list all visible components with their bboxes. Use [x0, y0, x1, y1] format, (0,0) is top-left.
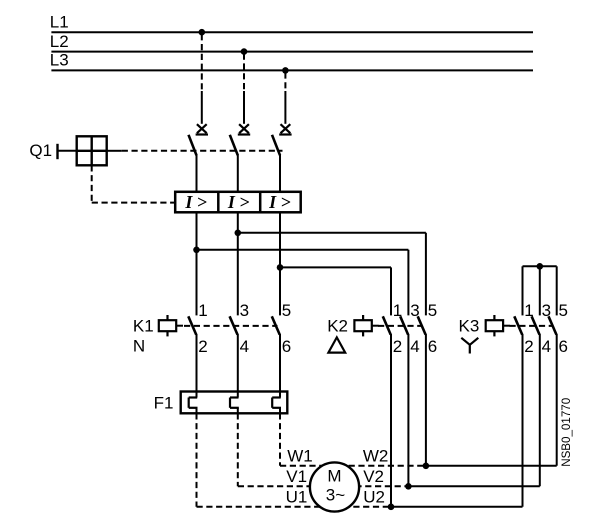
- wire K3 bridge to contact 1: [522, 266, 524, 315]
- dashed actuator link K2 to contacts: [378, 325, 423, 327]
- I> release 3 label: [268, 192, 295, 212]
- K3 terminal 4 label: [542, 337, 551, 356]
- wire F1 output 2 to motor V1 (dashed): [237, 413, 239, 486]
- svg-text:5: 5: [282, 301, 291, 320]
- node K3 star-point junction: [537, 263, 544, 270]
- contactor K1 coil symbol: [159, 315, 183, 336]
- wire Q1 tick to box: [58, 150, 77, 152]
- contactor K1 coil label: [133, 317, 154, 336]
- dashed actuator link K1 to contacts: [184, 325, 278, 327]
- svg-text:2: 2: [198, 337, 207, 356]
- K3 terminal 1 label: [524, 301, 533, 320]
- node V2 junction with K2 terminal 4: [405, 483, 412, 490]
- svg-text:W2: W2: [363, 447, 389, 466]
- motor label 3~: [326, 486, 345, 505]
- svg-text:L2: L2: [50, 32, 69, 51]
- drawing number NSB0_01770: [560, 398, 573, 467]
- svg-text:U1: U1: [286, 488, 308, 507]
- wire motor row U1-U2 (dashed section): [197, 506, 392, 508]
- wire K3 bridge to contact 5: [556, 266, 558, 315]
- K2 contact blade 1-2: [383, 316, 391, 334]
- svg-text:K2: K2: [327, 317, 348, 336]
- K3 star-point bridge bar: [523, 265, 557, 267]
- wire K1 contact 4 to F1: [237, 334, 239, 398]
- motor terminal label U2: [363, 488, 385, 507]
- K3 terminal 6 label: [559, 337, 568, 356]
- wire Q1 pole 1 to I> block: [196, 155, 198, 193]
- dashed actuator link K3 to contacts: [510, 325, 554, 327]
- K2 terminal 3 label: [410, 301, 419, 320]
- node tap L2 branch to K2 terminal 5: [235, 230, 242, 237]
- motor terminal label V1: [286, 467, 307, 486]
- wire I> output 2 to K1 contact: [237, 212, 239, 315]
- svg-text:2: 2: [524, 337, 533, 356]
- svg-text:L3: L3: [50, 51, 69, 70]
- K1 terminal 2 label: [198, 337, 207, 356]
- contactor K2 coil label: [327, 317, 348, 336]
- node L3 tap junction: [282, 67, 289, 74]
- svg-text:K1: K1: [133, 317, 154, 336]
- I> release 1 label: [184, 192, 211, 212]
- Q1 pole 1 fixed contact (X): [196, 124, 208, 134]
- svg-text:V2: V2: [363, 467, 384, 486]
- wire L1 drop to Q1 pole 1: [201, 34, 203, 124]
- svg-text:I>: I>: [268, 192, 295, 212]
- K3 contact blade 5-6: [549, 316, 557, 334]
- K2 terminal 4 label: [410, 337, 419, 356]
- node U2 junction with K2 terminal 2: [388, 504, 395, 511]
- Q1 pole 3 fixed contact (X): [279, 124, 291, 134]
- svg-text:U2: U2: [363, 488, 385, 507]
- svg-text:3: 3: [240, 301, 249, 320]
- Q1 pole 2 fixed contact (X): [238, 124, 250, 134]
- wire V2 row to K3 terminal 4: [408, 485, 539, 487]
- svg-text:I>: I>: [184, 192, 211, 212]
- K2 terminal 2 label: [393, 337, 402, 356]
- Q1 pole 2 blade: [230, 135, 238, 156]
- K1 terminal 3 label: [240, 301, 249, 320]
- K3 contact blade 3-4: [532, 316, 540, 334]
- K2 terminal 1 label: [393, 301, 402, 320]
- contactor K3 coil label: [459, 317, 480, 336]
- svg-text:4: 4: [240, 337, 249, 356]
- wire K3 bridge to contact 3: [539, 266, 541, 315]
- K3 contact blade 1-2: [514, 316, 522, 334]
- svg-text:W1: W1: [287, 447, 313, 466]
- K3 terminal 2 label: [524, 337, 533, 356]
- wire Q1 pole 3 to I> block: [279, 155, 281, 193]
- svg-text:F1: F1: [154, 394, 174, 413]
- K1 terminal 4 label: [240, 337, 249, 356]
- svg-text:5: 5: [428, 301, 437, 320]
- F1 heater element 1: [189, 398, 198, 415]
- motor terminal label W1: [287, 447, 313, 466]
- K3 terminal 5 label: [559, 301, 568, 320]
- wire L2 drop to Q1 pole 2: [243, 54, 245, 124]
- svg-text:N: N: [133, 337, 145, 356]
- node tap L1 branch to K2 terminal 3: [193, 247, 200, 254]
- K2 contact blade 3-4: [400, 316, 408, 334]
- K2 terminal 6 label: [428, 337, 437, 356]
- F1 heater element 3: [272, 398, 281, 415]
- Q1 operating mechanism box: [77, 136, 107, 165]
- contactor K3 coil symbol: [486, 315, 510, 336]
- K1 function label N (mains): [133, 337, 145, 356]
- wire L1 branch to K2 terminal 3: [197, 250, 409, 316]
- K1 contact blade 3-4: [230, 316, 238, 334]
- wire L2 branch to K2 terminal 5: [238, 233, 426, 316]
- node L2 tap junction: [241, 48, 248, 55]
- K1 terminal 6 label: [282, 337, 291, 356]
- svg-text:I>: I>: [227, 192, 254, 212]
- node tap L3 branch to K2 terminal 1: [277, 264, 284, 271]
- motor terminal label U1: [286, 488, 308, 507]
- motor terminal label V2: [363, 467, 384, 486]
- wire F1 output 3 to motor W1 (dashed): [279, 413, 281, 466]
- net L3 supply line: [50, 51, 533, 71]
- overload relay F1 box: [181, 392, 288, 414]
- net L1 supply line: [50, 13, 533, 33]
- K1 terminal 1 label: [198, 301, 207, 320]
- wire W2 row to K3 terminal 6: [426, 465, 557, 467]
- K2 function label delta: [328, 337, 345, 352]
- svg-text:K3: K3: [459, 317, 480, 336]
- net L2 supply line: [50, 32, 533, 52]
- wire K3 contact 6 down to motor row: [556, 334, 558, 466]
- wire U2 row to K3 terminal 2: [391, 506, 523, 508]
- F1 heater element 2: [230, 398, 239, 415]
- circuit breaker Q1 label: [29, 141, 52, 160]
- wire Q1 pole 2 to I> block: [237, 155, 239, 193]
- wire K3 contact 2 down to motor row: [522, 334, 524, 507]
- wire I> output 3 to K1 contact: [279, 212, 281, 315]
- wire K1 contact 6 to F1: [279, 334, 281, 398]
- svg-text:4: 4: [410, 337, 419, 356]
- motor terminal label W2: [363, 447, 389, 466]
- K3 function label star (Y): [461, 338, 478, 354]
- wire K1 contact 2 to F1: [196, 334, 198, 398]
- overload relay F1 label: [154, 394, 174, 413]
- Q1 pole 1 blade: [189, 135, 197, 156]
- svg-text:6: 6: [428, 337, 437, 356]
- svg-text:6: 6: [282, 337, 291, 356]
- svg-text:M: M: [327, 466, 341, 485]
- K3 terminal 3 label: [542, 301, 551, 320]
- contactor K2 coil symbol: [354, 315, 378, 336]
- svg-text:6: 6: [559, 337, 568, 356]
- svg-text:L1: L1: [50, 13, 69, 32]
- K1 contact blade 1-2: [188, 316, 196, 334]
- K1 contact blade 5-6: [272, 316, 280, 334]
- wire K3 contact 4 down to motor row: [539, 334, 541, 486]
- Q1 handle tick: [56, 144, 58, 159]
- Q1 pole 3 blade: [272, 135, 280, 156]
- wire K2 contact 4 down to motor row: [407, 334, 409, 486]
- wire motor row V1-V2 (dashed section): [238, 485, 409, 487]
- svg-text:1: 1: [198, 301, 207, 320]
- svg-text:2: 2: [393, 337, 402, 356]
- svg-text:4: 4: [542, 337, 551, 356]
- svg-text:NSB0_01770: NSB0_01770: [560, 398, 573, 467]
- node W2 junction with K2 terminal 6: [423, 463, 430, 470]
- overcurrent release block I> outline: [175, 192, 301, 213]
- wire L3 drop to Q1 pole 3: [284, 72, 286, 123]
- dashed actuator link Q1 to poles: [107, 150, 283, 152]
- svg-text:3~: 3~: [326, 486, 345, 505]
- wire L3 branch to K2 terminal 1: [280, 267, 391, 315]
- I> release 2 label: [227, 192, 254, 212]
- wire F1 output 1 to motor U1 (dashed): [196, 413, 198, 507]
- node L1 tap junction: [199, 29, 206, 36]
- svg-text:Q1: Q1: [29, 141, 52, 160]
- wire motor row W1-W2 (dashed section): [280, 465, 426, 467]
- K2 terminal 5 label: [428, 301, 437, 320]
- K1 terminal 5 label: [282, 301, 291, 320]
- motor M1 circle: [310, 462, 359, 511]
- dashed trip link Q1 to I> releases: [92, 165, 174, 202]
- K2 contact blade 5-6: [418, 316, 426, 334]
- wire K2 contact 2 down to motor row: [390, 334, 392, 507]
- svg-text:5: 5: [559, 301, 568, 320]
- wire I> output 1 to K1 contact: [196, 212, 198, 315]
- motor label M: [327, 466, 341, 485]
- wire K2 contact 6 down to motor row: [425, 334, 427, 466]
- svg-text:V1: V1: [286, 467, 307, 486]
